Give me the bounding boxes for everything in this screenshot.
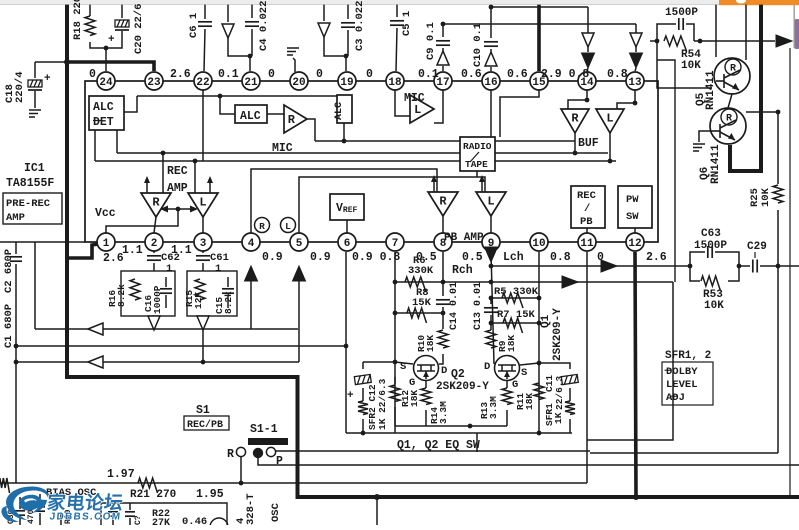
label R22 27K <box>152 509 170 529</box>
svg-text:R5 330K: R5 330K <box>494 286 539 298</box>
svg-text:C6 1: C6 1 <box>188 13 200 38</box>
wire contactR down <box>240 457 242 483</box>
wire eq sep <box>476 433 478 452</box>
pin 21 <box>242 72 260 90</box>
net label 0 top <box>366 68 373 81</box>
resistor R10 <box>416 313 448 364</box>
svg-text:18K: 18K <box>425 335 436 352</box>
junction y153 recR <box>161 151 166 156</box>
junction C14 bot <box>441 311 446 316</box>
capacitor C4 <box>245 1 270 56</box>
svg-text:R: R <box>227 448 234 461</box>
svg-text:PB AMP: PB AMP <box>444 232 484 244</box>
label Vcc <box>95 207 116 220</box>
pin 3 <box>194 233 212 251</box>
block ALC DET <box>89 96 124 130</box>
label SFR1 2 <box>665 350 711 362</box>
net label 0.9 bottom <box>262 251 283 264</box>
svg-text:3.3M: 3.3M <box>488 396 499 419</box>
svg-text:1.95: 1.95 <box>196 488 224 501</box>
svg-text:R18 220: R18 220 <box>72 0 84 40</box>
pin 24 <box>97 72 115 90</box>
net label 2.9 0.8 top <box>541 68 589 81</box>
pin 15 <box>530 72 548 90</box>
network box R16/C16 <box>121 271 175 316</box>
svg-text:PW: PW <box>626 194 639 206</box>
block osc box <box>101 503 227 525</box>
junction rail x470 <box>468 424 473 429</box>
label 0.46 <box>182 516 207 528</box>
svg-text:10K: 10K <box>760 187 772 207</box>
label 1.97 <box>107 468 135 481</box>
net label 1.1 bottom <box>171 244 192 257</box>
junction heavy y497 x377 <box>374 494 380 500</box>
op-amp MIC R <box>272 105 307 155</box>
junction pin9 y265 <box>489 264 494 269</box>
junction C3 node <box>344 54 349 59</box>
svg-text:7: 7 <box>392 238 399 250</box>
wire net y346 <box>16 345 346 347</box>
watermark logo <box>1 486 124 522</box>
wire pin14 to BUFR <box>568 90 587 109</box>
resistor edge stub <box>0 478 10 493</box>
svg-text:S: S <box>521 367 527 379</box>
svg-text:D: D <box>441 365 447 377</box>
svg-text:SW: SW <box>626 211 639 223</box>
op-amp MIC L <box>404 92 434 123</box>
label 1.95 <box>196 488 224 501</box>
wire recL in <box>194 161 196 193</box>
pin 2 <box>145 233 163 251</box>
net label 0.1 top <box>418 68 439 81</box>
network box R15/C15 <box>187 271 237 316</box>
wire pin12 drop <box>635 252 636 497</box>
wire MICL out <box>434 90 443 123</box>
ground Q6 <box>693 144 705 151</box>
label IC1 <box>24 162 45 175</box>
wire net y362 <box>16 361 299 363</box>
wire MICR out <box>307 119 315 141</box>
svg-text:R7 15K: R7 15K <box>497 309 536 321</box>
wire Q6 node right <box>746 111 778 113</box>
svg-text:8.2k: 8.2k <box>116 284 127 307</box>
wire heavy to pin1 <box>66 244 98 258</box>
wire node to pin19 <box>345 56 347 71</box>
op-amp BUF R <box>561 109 589 133</box>
capacitor osc a <box>108 503 118 525</box>
wire recpb to pin11 <box>586 228 588 233</box>
wire Q5 collector top <box>745 5 747 60</box>
junction C2 y362 <box>14 360 19 365</box>
junction ALCv <box>342 139 347 144</box>
wire Q1 S <box>520 363 539 365</box>
svg-text:TAPE: TAPE <box>465 159 488 170</box>
arrow rec L up <box>207 176 213 193</box>
resistor R5 <box>494 286 539 308</box>
wire gate rail <box>395 425 507 427</box>
pin 10 <box>530 233 548 251</box>
label S Q2 <box>400 361 406 373</box>
wire osc drop <box>376 497 378 525</box>
wire C18 to bus <box>35 61 66 63</box>
svg-text:18K: 18K <box>506 335 517 352</box>
resistor R13 <box>479 380 512 426</box>
svg-text:+: + <box>347 390 354 402</box>
wire pwsw to pin12 <box>634 228 636 233</box>
arrow Rch right <box>562 276 578 288</box>
capacitor C5 <box>390 5 413 71</box>
label Q2 <box>436 368 489 393</box>
wire pin11 drop <box>586 252 588 483</box>
svg-text:REC: REC <box>577 190 597 202</box>
pin 19 <box>338 72 356 90</box>
svg-text:R: R <box>288 113 296 127</box>
wire ALC to MICR <box>267 113 284 115</box>
arrow left y362 <box>88 356 103 368</box>
trimmer SFR1 <box>539 363 578 433</box>
label D Q2 <box>441 365 447 377</box>
wire BUFL out <box>609 133 611 161</box>
svg-text:1: 1 <box>103 238 110 250</box>
svg-text:PB: PB <box>580 216 593 228</box>
purple scrollbar fragment <box>794 19 799 49</box>
node R circle <box>255 218 270 233</box>
wire net y141 <box>315 140 575 142</box>
svg-text:C5 1: C5 1 <box>401 11 413 36</box>
junction R7 right <box>537 321 542 326</box>
svg-text:1.1: 1.1 <box>122 244 143 257</box>
net label 0.8 bottom <box>550 251 571 264</box>
svg-text:0: 0 <box>316 68 323 81</box>
block ALC vert <box>334 95 352 123</box>
svg-text:22: 22 <box>196 77 209 89</box>
svg-text:Q2: Q2 <box>451 368 465 381</box>
svg-text:Rch: Rch <box>452 264 473 277</box>
svg-text:0: 0 <box>89 68 96 81</box>
wire net y433 <box>346 432 572 434</box>
svg-text:D: D <box>484 361 490 373</box>
wire pbL to pin9 <box>490 216 492 233</box>
svg-text:220/4: 220/4 <box>14 71 26 103</box>
wire pin22 down <box>202 90 204 161</box>
pin 9 <box>482 233 500 251</box>
svg-text:C13 0.01: C13 0.01 <box>473 282 484 330</box>
junction bufl <box>633 101 638 106</box>
svg-text:1500P: 1500P <box>665 7 698 19</box>
svg-text:BUF: BUF <box>578 137 599 150</box>
op-amp PB R <box>428 192 458 216</box>
svg-text:4: 4 <box>248 238 255 250</box>
net label 0.8 top <box>607 68 628 81</box>
arrow out pin3 net <box>197 316 209 362</box>
svg-text:LEVEL: LEVEL <box>666 379 698 391</box>
svg-text:C4 0.022: C4 0.022 <box>258 1 270 51</box>
svg-text:10: 10 <box>532 238 545 250</box>
pin 17 <box>434 72 452 90</box>
svg-text:ALC: ALC <box>334 102 345 120</box>
svg-text:C2 680P: C2 680P <box>3 249 15 293</box>
wire heavy right riser <box>730 5 761 171</box>
svg-text:10K: 10K <box>704 300 724 312</box>
wire net y313 <box>395 312 443 314</box>
net label 2.6 top <box>170 68 191 81</box>
wire pin7 chain <box>394 252 396 433</box>
arrows into pin13 <box>630 24 643 71</box>
svg-text:IC1: IC1 <box>24 162 45 175</box>
wire Q2 S <box>395 362 413 364</box>
arrow out pin2 net <box>148 316 160 330</box>
resistor R6 <box>405 255 434 292</box>
switch contact mid <box>253 448 263 458</box>
capacitor C16 <box>143 277 172 314</box>
wire rec fb <box>160 206 198 213</box>
capacitor hidden b <box>27 494 45 525</box>
capacitor hidden a <box>7 497 25 525</box>
svg-text:C14 0.01: C14 0.01 <box>449 282 460 330</box>
block REC/PB switch label <box>184 416 229 431</box>
op-amp REC L <box>188 193 218 217</box>
svg-text:18K: 18K <box>524 393 535 410</box>
pin 22 <box>194 72 212 90</box>
net label 0.5 bottom <box>416 251 437 264</box>
wire net y483 <box>0 482 587 484</box>
net label 0.9 bottom <box>310 251 331 264</box>
arrow into pin21 <box>222 5 250 56</box>
svg-text:R: R <box>439 194 447 208</box>
trimmer SFR2 <box>347 362 395 433</box>
svg-text:2.6: 2.6 <box>170 68 191 81</box>
junction C63 left <box>688 264 693 269</box>
capacitor C1 label <box>3 304 15 348</box>
browser top bar <box>0 0 799 5</box>
svg-text:Lch: Lch <box>503 251 524 264</box>
junction pin16 y153 <box>489 151 494 156</box>
arrow pin4 <box>245 266 258 329</box>
label Q1 Q2 EQ SW <box>397 439 480 452</box>
wire to pin24 <box>105 48 107 71</box>
svg-text:G: G <box>409 377 415 389</box>
svg-text:+: + <box>44 73 51 85</box>
op-amp BUF L <box>596 109 624 133</box>
arrow rec R up <box>144 176 150 193</box>
resistor R8 <box>407 287 432 323</box>
pin 11 <box>578 233 596 251</box>
svg-text:L: L <box>487 194 494 208</box>
wire ALCDET down b <box>116 130 118 153</box>
wire BUFR out <box>574 133 576 153</box>
capacitor osc b <box>125 503 143 525</box>
window right border <box>793 5 795 48</box>
net label Lch bottom <box>503 251 524 264</box>
ground C18 <box>29 110 41 117</box>
orange tab fragment <box>719 0 799 5</box>
resistor R54 <box>650 36 775 72</box>
transistor Q1 <box>495 356 520 381</box>
net label 0.6 top <box>461 68 482 81</box>
svg-text:0.8: 0.8 <box>550 251 571 264</box>
label Rch <box>452 264 473 277</box>
wire pin6 drop <box>345 346 347 433</box>
net label 0 bottom <box>597 251 604 264</box>
switch contact R <box>227 447 246 461</box>
wire net y323 <box>491 322 539 324</box>
label R21 270 <box>130 489 176 501</box>
net label 2.6 bottom <box>103 252 124 265</box>
resistor R9 <box>486 323 517 352</box>
wire pin18 to MICL <box>395 90 410 116</box>
junction pin7 y313 <box>393 311 398 316</box>
wire x35 drop <box>34 242 36 329</box>
svg-text:L: L <box>199 195 206 209</box>
svg-text:C10 0.1: C10 0.1 <box>472 23 484 67</box>
svg-text:2: 2 <box>151 238 158 250</box>
pin 18 <box>386 72 404 90</box>
wire net Lch y266 <box>491 265 690 267</box>
svg-text:0: 0 <box>366 68 373 81</box>
net label 0.5 bottom <box>462 251 483 264</box>
wire pin8 down <box>442 252 444 282</box>
resistor R11 <box>515 383 544 410</box>
svg-text:16: 16 <box>484 77 497 89</box>
node L circle <box>281 218 296 233</box>
pin 4 <box>242 233 260 251</box>
label S1 <box>196 404 210 417</box>
junction C9 top <box>441 22 446 27</box>
wire pin16 down <box>490 90 492 153</box>
svg-text:3: 3 <box>200 238 207 250</box>
wire pin13 to BUFL <box>617 90 635 109</box>
pin 5 <box>290 233 308 251</box>
svg-text:330K: 330K <box>408 265 434 277</box>
svg-text:S1-1: S1-1 <box>250 423 278 436</box>
label BUF <box>578 137 599 150</box>
block PW SW <box>618 186 652 228</box>
svg-text:21: 21 <box>244 77 258 89</box>
svg-text:0.1: 0.1 <box>218 68 239 81</box>
ground pin20 <box>287 48 299 72</box>
svg-text:JDBBS.COM: JDBBS.COM <box>49 512 122 523</box>
svg-text:20: 20 <box>292 77 305 89</box>
resistor R15 <box>184 279 205 309</box>
wire R25 drop <box>777 266 779 453</box>
wire ALCDET out <box>124 96 137 112</box>
svg-text:1: 1 <box>166 263 172 275</box>
wire pin15 to RT <box>500 90 539 137</box>
arrow out right <box>776 35 792 47</box>
pin 13 <box>626 72 644 90</box>
svg-text:24: 24 <box>99 77 113 89</box>
capacitor C18 <box>4 62 51 108</box>
block ALC <box>235 105 267 123</box>
svg-text:R21 270: R21 270 <box>130 489 176 501</box>
transistor Q5 <box>695 58 750 110</box>
svg-text:PRE-REC: PRE-REC <box>6 198 51 210</box>
svg-text:1: 1 <box>215 263 221 275</box>
svg-text:0.46: 0.46 <box>182 516 207 525</box>
pin 12 <box>626 233 644 251</box>
svg-text:0: 0 <box>268 68 275 81</box>
net label 2.6 bottom <box>646 251 667 264</box>
svg-text:0.1: 0.1 <box>418 68 439 81</box>
label TA8155F <box>6 177 54 190</box>
junction R18/C20 <box>104 46 109 51</box>
svg-text:0.5: 0.5 <box>462 251 483 264</box>
wire RT out <box>476 171 478 177</box>
junction C14 top <box>441 280 446 285</box>
arrows into pin14 <box>582 7 595 71</box>
svg-text:0.6: 0.6 <box>507 68 528 81</box>
transistor Q3 partial <box>210 518 228 530</box>
junction R54 left <box>655 39 660 44</box>
svg-text:0.6: 0.6 <box>461 68 482 81</box>
arrow pb R up <box>431 175 437 192</box>
resistor R21 <box>138 478 158 493</box>
capacitor C29 <box>739 241 799 273</box>
wire net y329 <box>35 328 298 330</box>
capacitor C9 + diode <box>425 22 450 71</box>
svg-text:R: R <box>571 111 579 125</box>
block DOLBY <box>662 362 713 405</box>
svg-text:2SK209-Y: 2SK209-Y <box>436 381 489 393</box>
svg-text:1K: 1K <box>553 412 564 424</box>
label REC AMP <box>167 165 188 195</box>
capacitor C10 + diode <box>472 7 498 71</box>
wire chip bottom ext <box>0 241 85 243</box>
svg-text:C?: C? <box>134 515 143 525</box>
label D Q1 <box>484 361 490 373</box>
svg-text:1.97: 1.97 <box>107 468 135 481</box>
svg-text:2.6: 2.6 <box>103 252 124 265</box>
junction pin9 y282 <box>489 280 494 285</box>
junction heavy y497 x636 <box>633 494 639 500</box>
arrow Lch right <box>601 260 617 272</box>
svg-text:3.3M: 3.3M <box>438 401 449 424</box>
svg-text:2.6: 2.6 <box>646 251 667 264</box>
svg-text:L: L <box>285 221 291 232</box>
wire ALCDET down a <box>94 130 96 161</box>
wire pbR to pin8 <box>442 216 444 233</box>
wire net y451 <box>276 450 590 452</box>
junction R25 y266 <box>776 264 781 269</box>
svg-text:0.8: 0.8 <box>607 68 628 81</box>
wire recR in <box>162 153 164 193</box>
transistor Q6 <box>699 108 746 184</box>
junction R5 right <box>537 296 542 301</box>
svg-text:6: 6 <box>344 238 351 250</box>
svg-text:27K: 27K <box>152 518 170 525</box>
pin 14 <box>578 72 596 90</box>
label G Q2 <box>409 377 415 389</box>
svg-text:C29: C29 <box>747 241 767 253</box>
svg-text:Vcc: Vcc <box>95 207 116 220</box>
svg-text:19: 19 <box>340 77 353 89</box>
svg-text:Q1: Q1 <box>540 314 552 328</box>
capacitor C64 1500P <box>657 7 698 41</box>
net label 0.9 0.8 bottom <box>352 251 400 264</box>
wire R54 to Q5 base <box>657 41 712 88</box>
wire ALCv bottom <box>343 123 345 141</box>
capacitor C3 <box>341 1 366 56</box>
junction pin7 y362 <box>393 360 398 365</box>
net label 0.1 top <box>218 68 239 81</box>
IC1 TA8155F outline <box>85 81 658 242</box>
svg-text:0.9: 0.9 <box>310 251 331 264</box>
resistor R12 <box>390 377 420 426</box>
label BIAS OSC <box>46 487 97 499</box>
wire node to pin21 <box>249 56 251 71</box>
wire net y298 <box>491 297 539 299</box>
wire to ALC box <box>220 96 235 114</box>
